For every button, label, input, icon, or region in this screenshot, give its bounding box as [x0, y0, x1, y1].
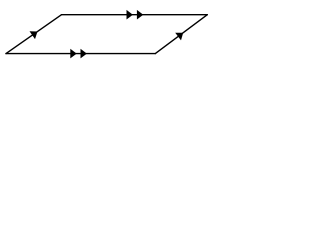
parallelogram diagram	[0, 0, 213, 72]
arrowhead: top double arrow 1	[127, 10, 133, 20]
arrowhead: top double arrow 2	[137, 10, 143, 20]
wire: right side BR-TR	[155, 15, 207, 54]
wire: top side TL-TR	[62, 14, 208, 16]
wire: left side BL-TL	[6, 15, 62, 54]
arrowhead: single arrow on right side	[175, 33, 183, 41]
wire: bottom side BL-BR	[6, 53, 155, 55]
arrowhead: bottom double arrow 1	[70, 49, 76, 59]
arrowhead: single arrow on left side	[30, 31, 38, 39]
arrowhead: bottom double arrow 2	[81, 49, 87, 59]
